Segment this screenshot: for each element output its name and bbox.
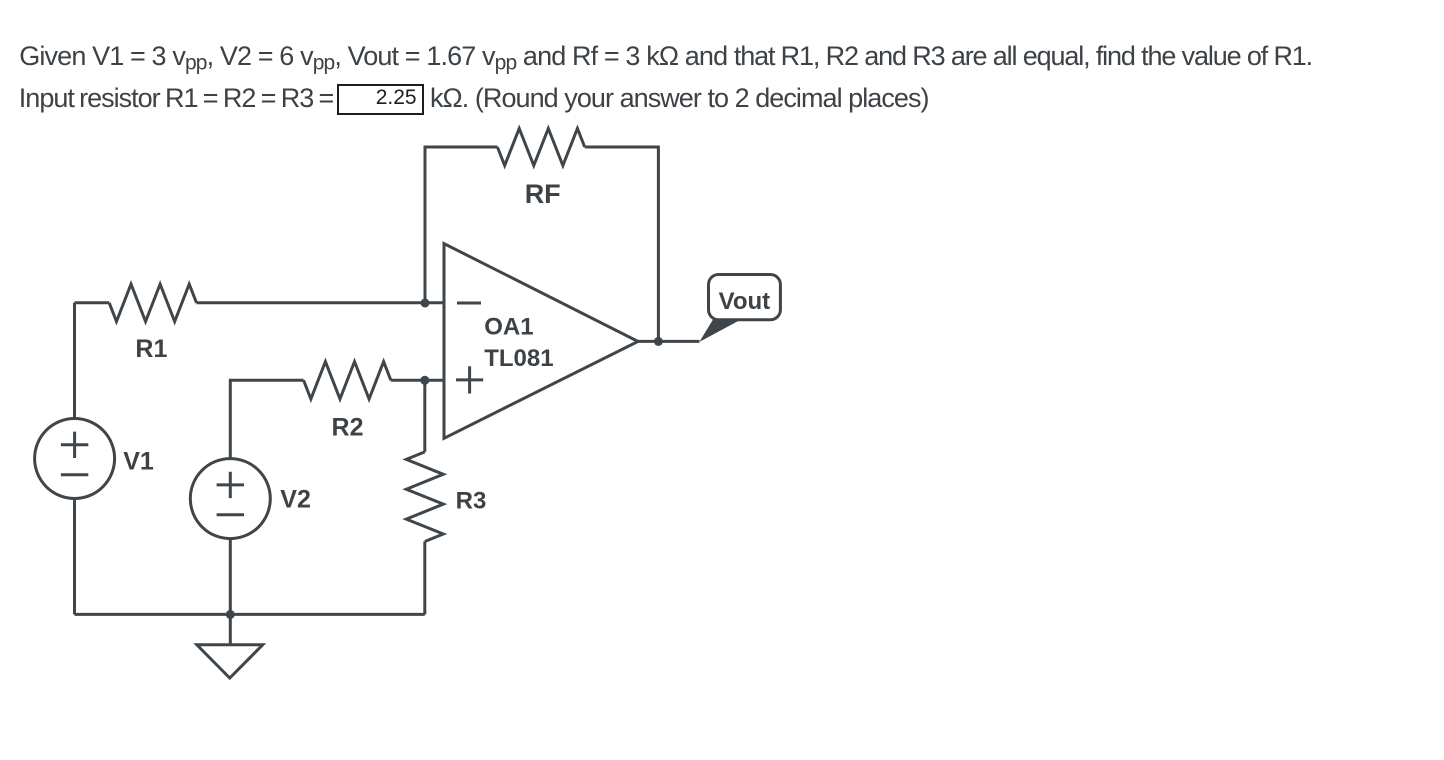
svg-text:V2: V2 — [280, 485, 311, 513]
svg-text:RF: RF — [525, 179, 561, 209]
svg-text:V1: V1 — [123, 448, 154, 476]
svg-text:R1: R1 — [135, 335, 167, 363]
svg-text:Vout: Vout — [719, 288, 771, 315]
svg-text:R3: R3 — [456, 487, 487, 514]
svg-text:R2: R2 — [332, 414, 364, 442]
svg-text:TL081: TL081 — [484, 345, 553, 372]
svg-text:OA1: OA1 — [484, 313, 533, 340]
